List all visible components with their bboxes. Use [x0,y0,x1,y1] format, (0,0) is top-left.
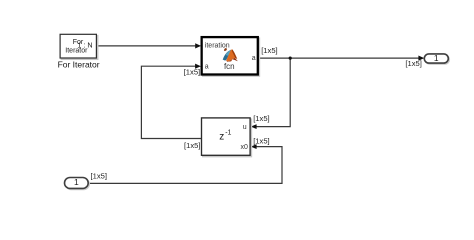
svg-text:[1x5]: [1x5] [91,172,107,181]
svg-text:[1x5]: [1x5] [184,67,200,76]
svg-text:u: u [243,124,247,131]
svg-text:[1x5]: [1x5] [261,46,277,55]
svg-text:[1x5]: [1x5] [184,141,200,150]
svg-text:z: z [219,132,224,143]
svg-text:1: 1 [74,177,79,187]
svg-text:[1x5]: [1x5] [253,136,269,145]
svg-text:1: 1 [434,53,439,63]
svg-text:-1: -1 [225,130,231,137]
svg-text:[1x5]: [1x5] [253,114,269,123]
svg-text:fcn: fcn [224,62,235,71]
svg-text:Iterator: Iterator [65,47,88,54]
svg-text:a: a [205,64,209,71]
svg-text:For Iterator: For Iterator [58,59,100,69]
svg-text:a: a [252,55,256,62]
svg-text:[1x5]: [1x5] [405,59,421,68]
svg-text:x0: x0 [240,144,248,151]
